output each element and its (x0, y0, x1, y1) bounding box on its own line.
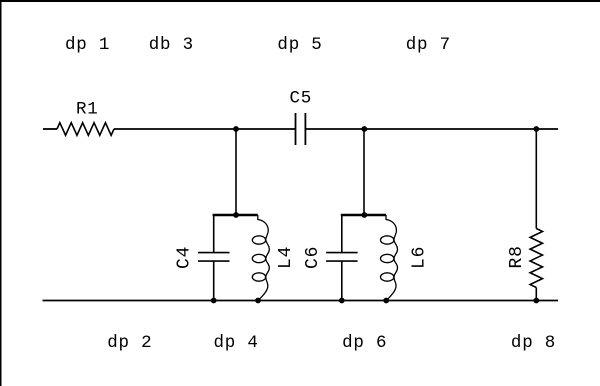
node bottom rail / C6 (339, 298, 345, 304)
svg-text:db 3: db 3 (149, 35, 194, 55)
svg-text:dp 2: dp 2 (107, 333, 152, 353)
svg-text:C6: C6 (303, 246, 323, 269)
wire: tank 1 top bar (213, 214, 258, 216)
svg-text:R1: R1 (76, 100, 99, 120)
inductor L4 (258, 215, 270, 301)
node bottom rail / C4 (211, 298, 217, 304)
svg-text:R8: R8 (507, 245, 527, 268)
capacitor C5 (296, 113, 306, 145)
wire: R1 to C5 (114, 128, 296, 130)
node bottom rail / R8 (533, 298, 539, 304)
node bottom rail / L6 (383, 298, 389, 304)
wire: R8 top lead (535, 129, 537, 229)
wire: top rail left segment (input to C5 left plate) (43, 128, 57, 130)
wire: node 5 drop (top rail to tank 2) (363, 129, 365, 215)
resistor R1 (57, 123, 114, 136)
node at top rail / tank 2 (361, 126, 367, 132)
capacitor C4 (213, 215, 215, 301)
capacitor C6 (341, 215, 343, 301)
node tank 1 bar (233, 212, 239, 218)
svg-text:dp 1: dp 1 (65, 35, 110, 55)
svg-text:dp 7: dp 7 (406, 35, 451, 55)
svg-text:C5: C5 (290, 89, 313, 109)
node at top rail / tank 1 (233, 126, 239, 132)
node at top rail / R8 (533, 126, 539, 132)
svg-text:dp 6: dp 6 (342, 333, 387, 353)
wire: node 3 drop (top rail to tank 1) (235, 129, 237, 215)
node tank 2 bar (361, 212, 367, 218)
svg-text:dp 4: dp 4 (214, 333, 259, 353)
svg-text:dp 8: dp 8 (511, 333, 556, 353)
wire: R8 bottom lead (535, 288, 537, 301)
svg-text:C4: C4 (175, 246, 195, 269)
node bottom rail / L4 (255, 298, 261, 304)
svg-text:dp 5: dp 5 (277, 35, 322, 55)
svg-text:L6: L6 (410, 246, 430, 269)
wire: C5 to right end of top rail (305, 128, 558, 130)
inductor L6 (386, 215, 398, 301)
resistor R8 (530, 229, 542, 288)
svg-text:L4: L4 (276, 246, 296, 269)
wire: tank 2 top bar (341, 214, 386, 216)
wire: bottom rail (43, 300, 559, 302)
